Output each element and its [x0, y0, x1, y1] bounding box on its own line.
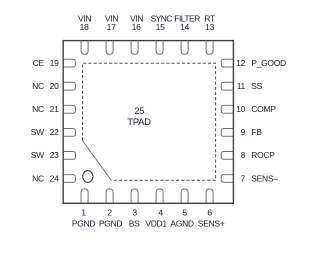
svg-text:22: 22 — [50, 127, 59, 137]
svg-text:AGND: AGND — [170, 218, 194, 228]
pin 6 pad (SENS+) — [206, 189, 213, 203]
pin 4 labels 4 / VDD1 — [145, 208, 167, 229]
pin 23 labels SW 23 — [31, 150, 59, 160]
pin 24 labels NC 24 — [32, 173, 59, 183]
svg-text:4: 4 — [158, 208, 163, 218]
svg-text:SW: SW — [31, 150, 44, 160]
pin 18 labels VIN / 18 — [78, 14, 91, 33]
pin 11 pad (SS) — [221, 82, 233, 90]
svg-text:CE: CE — [33, 58, 45, 68]
pin 7 labels 7 SENS– — [241, 173, 279, 183]
pin 12 pad (P_GOOD) — [221, 59, 233, 67]
svg-text:SENS+: SENS+ — [198, 218, 225, 228]
pin 15 labels SYNC / 15 — [150, 14, 172, 33]
svg-text:5: 5 — [182, 208, 187, 218]
svg-text:PGND: PGND — [99, 218, 123, 228]
svg-text:NC: NC — [32, 173, 44, 183]
pin 19 pad (CE) — [64, 59, 76, 67]
svg-text:11: 11 — [237, 81, 246, 91]
pin 9 pad (FB) — [221, 129, 233, 137]
pin 20 labels NC 20 — [32, 81, 59, 91]
svg-text:NC: NC — [32, 81, 44, 91]
svg-text:7: 7 — [241, 173, 246, 183]
pin 5 pad (AGND) — [181, 189, 188, 203]
pin 13 labels RT / 13 — [204, 14, 215, 33]
svg-text:24: 24 — [50, 173, 59, 183]
pin 13 pad (RT) — [206, 41, 213, 54]
svg-text:PGND: PGND — [72, 218, 96, 228]
svg-text:SS: SS — [251, 81, 262, 91]
pin 8 labels 8 ROCP — [241, 150, 276, 160]
svg-text:25: 25 — [134, 106, 144, 117]
pin 15 pad (SYNC) — [156, 41, 163, 54]
pin 23 pad (SW) — [64, 152, 76, 160]
svg-text:P_GOOD: P_GOOD — [251, 58, 286, 68]
pin 19 labels CE 19 — [33, 58, 59, 68]
pin 1 index mark circle — [83, 171, 93, 183]
pin 3 labels 3 / BS — [129, 208, 140, 229]
svg-text:6: 6 — [207, 208, 212, 218]
pin 21 labels NC 21 — [32, 104, 59, 114]
svg-text:BS: BS — [129, 218, 140, 228]
pin 9 labels 9 FB — [241, 127, 263, 137]
pin 16 labels VIN / 16 — [130, 14, 143, 33]
svg-text:FB: FB — [251, 127, 262, 137]
pin 14 pad (FILTER) — [181, 41, 188, 54]
svg-text:14: 14 — [180, 22, 189, 32]
pin 8 pad (ROCP) — [221, 152, 233, 160]
svg-text:15: 15 — [156, 22, 165, 32]
svg-text:16: 16 — [132, 22, 141, 32]
svg-text:8: 8 — [241, 150, 246, 160]
pin 22 labels SW 22 — [31, 127, 59, 137]
svg-text:21: 21 — [50, 104, 59, 114]
exposed pad 25 TPAD dashed outline — [83, 63, 216, 180]
svg-text:12: 12 — [236, 58, 245, 68]
svg-text:9: 9 — [241, 127, 246, 137]
svg-text:TPAD: TPAD — [127, 117, 151, 128]
pin 1 pad (PGND) — [81, 189, 88, 203]
pin 3 pad (BS) — [131, 189, 138, 203]
exposed pad label 25 TPAD — [127, 106, 151, 128]
svg-text:ROCP: ROCP — [251, 150, 275, 160]
svg-text:SENS–: SENS– — [251, 173, 278, 183]
pin 10 pad (COMP) — [221, 105, 233, 113]
pin 2 pad (PGND) — [106, 189, 113, 203]
svg-text:23: 23 — [50, 150, 59, 160]
svg-text:1: 1 — [81, 208, 86, 218]
svg-text:VDD1: VDD1 — [145, 218, 167, 228]
svg-text:10: 10 — [236, 104, 245, 114]
svg-text:SW: SW — [31, 127, 44, 137]
svg-text:19: 19 — [50, 58, 59, 68]
pin 16 pad (VIN) — [131, 41, 138, 54]
pin 20 pad (NC) — [64, 82, 76, 90]
package outline U1 (WQFN-24) — [63, 41, 233, 204]
pin 11 labels 11 SS — [237, 81, 263, 91]
pin 5 labels 5 / AGND — [170, 208, 194, 229]
pin 7 pad (SENS–) — [221, 175, 233, 183]
pin 14 labels FILTER / 14 — [174, 14, 200, 33]
exposed pad chamfer (pin 1 corner) — [83, 141, 112, 181]
pin 22 pad (SW) — [64, 129, 76, 137]
pin 17 pad (VIN) — [106, 41, 113, 54]
svg-text:20: 20 — [50, 81, 59, 91]
svg-text:NC: NC — [32, 104, 44, 114]
svg-text:COMP: COMP — [251, 104, 276, 114]
svg-text:13: 13 — [205, 22, 214, 32]
pin 21 pad (NC) — [64, 105, 76, 113]
pin 24 pad (NC) — [64, 175, 76, 183]
pin 4 pad (VDD1) — [156, 189, 163, 203]
pin 1 labels 1 / PGND — [72, 208, 96, 229]
svg-text:17: 17 — [107, 22, 116, 32]
pin 12 labels 12 P_GOOD — [236, 58, 286, 68]
svg-text:3: 3 — [132, 208, 137, 218]
pin 6 labels 6 / SENS+ — [198, 208, 225, 229]
svg-text:18: 18 — [80, 22, 89, 32]
pin 18 pad (VIN) — [81, 41, 88, 54]
pin 17 labels VIN / 17 — [105, 14, 118, 33]
pin 2 labels 2 / PGND — [99, 208, 123, 229]
svg-text:2: 2 — [107, 208, 112, 218]
pin 10 labels 10 COMP — [236, 104, 276, 114]
